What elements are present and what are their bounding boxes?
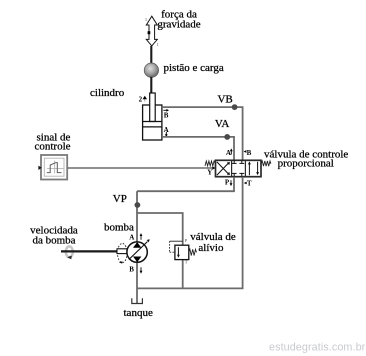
tank T1: tanque xyxy=(132,298,143,303)
angular velocity source arrowhead xyxy=(67,256,72,260)
valve port B label xyxy=(244,149,252,157)
node VB dot xyxy=(232,104,238,110)
svg-text:1: 1 xyxy=(157,42,159,47)
svg-text:P: P xyxy=(185,238,188,243)
wire VB: cylinder port B to valve port B xyxy=(162,107,243,160)
svg-text:cilindro: cilindro xyxy=(90,87,125,99)
svg-text:T: T xyxy=(247,180,252,188)
proportional valve U1 body xyxy=(216,160,262,176)
valve port P label xyxy=(225,178,233,186)
svg-text:VB: VB xyxy=(217,93,232,105)
wire VA: cylinder port A to valve port A xyxy=(162,137,234,160)
wire: pump A up to P wire xyxy=(136,191,138,242)
pump P1: bomba xyxy=(117,239,150,263)
svg-text:A: A xyxy=(129,234,134,242)
svg-text:2: 2 xyxy=(139,95,143,103)
valve port T label xyxy=(244,180,252,188)
cylinder port B label xyxy=(163,109,169,120)
svg-text:VP: VP xyxy=(113,193,127,205)
force source F1: força da gravidade (double arrow icon) xyxy=(145,16,159,47)
pump port A label xyxy=(129,233,142,242)
svg-text:A: A xyxy=(226,149,231,157)
svg-text:controle: controle xyxy=(34,140,70,152)
hydraulic cylinder body xyxy=(143,105,162,140)
pump port B label xyxy=(129,265,142,273)
mechanical wire: velocity source to pump shaft xyxy=(61,250,117,252)
cylinder port A label xyxy=(164,126,169,137)
svg-text:tanque: tanque xyxy=(124,307,153,319)
svg-text:proporcional: proporcional xyxy=(278,157,334,169)
signal source B1: sinal de controle xyxy=(38,155,67,180)
svg-text:B: B xyxy=(129,265,134,273)
svg-text:1: 1 xyxy=(145,17,147,22)
svg-text:Y: Y xyxy=(207,168,212,176)
relief valve V2: válvula de alívio xyxy=(170,238,197,264)
svg-text:pistão e carga: pistão e carga xyxy=(164,62,224,74)
valve right cell parallel arrows xyxy=(248,161,259,175)
valve left spring xyxy=(205,161,215,166)
mechanical wire: mass to piston rod xyxy=(150,77,152,94)
control wire: signal source to valve pilot Y xyxy=(67,167,213,169)
svg-text:T: T xyxy=(185,259,188,264)
svg-text:B: B xyxy=(247,149,252,157)
svg-text:bomba: bomba xyxy=(104,221,134,233)
mechanical wire: force source to mass xyxy=(150,46,152,64)
valve port A label xyxy=(226,148,233,157)
wire: pump B down to tank xyxy=(136,262,138,303)
svg-text:estudegratis.com.br: estudegratis.com.br xyxy=(269,342,366,354)
svg-text:alívio: alívio xyxy=(198,242,224,254)
valve left cell crossed arrows xyxy=(217,162,230,175)
wire T: valve port T down to tank line xyxy=(137,177,243,289)
svg-text:da bomba: da bomba xyxy=(32,235,75,247)
cylinder port 2 label xyxy=(139,95,147,103)
svg-text:B: B xyxy=(164,112,169,120)
wire P: valve port P to pump line xyxy=(137,177,234,192)
svg-text:gravidade: gravidade xyxy=(157,19,200,31)
angular velocity source S1 (velocidada da bomba icon) xyxy=(66,246,73,257)
svg-text:P: P xyxy=(225,178,230,186)
svg-text:VA: VA xyxy=(215,118,230,130)
mass M1: pistão e carga (sphere) xyxy=(144,63,158,77)
wire: branch to relief valve xyxy=(137,213,183,245)
piston rod xyxy=(150,93,156,122)
piston xyxy=(143,121,162,123)
node VA dot xyxy=(224,134,230,140)
valve centre cell blocked ports xyxy=(232,160,244,176)
valve right spring xyxy=(261,161,271,166)
wire: relief valve to tank line xyxy=(182,260,184,289)
node VP dot xyxy=(135,202,141,208)
